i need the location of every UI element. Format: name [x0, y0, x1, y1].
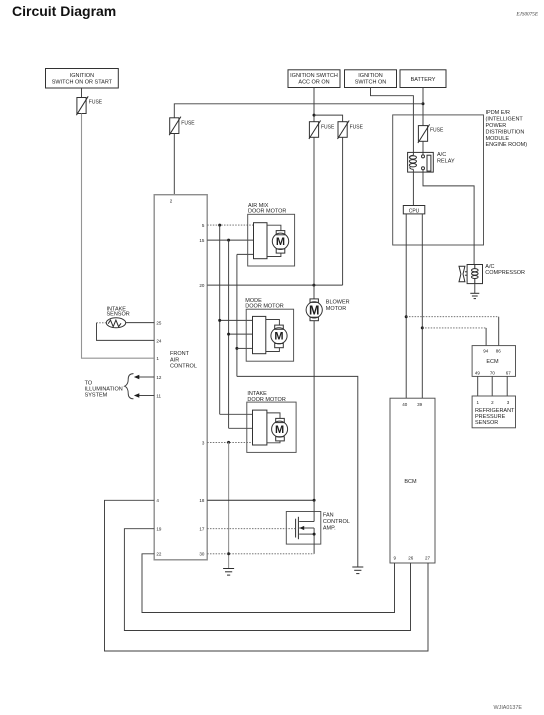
- wire bus B to mode input 2: [229, 333, 253, 335]
- svg-text:22: 22: [156, 552, 162, 557]
- wire F4 to relay contact: [422, 141, 424, 155]
- wire F2 to blower motor: [313, 137, 315, 299]
- wire intake sensor to pin 25: [126, 322, 155, 324]
- connector box IGNITION SWITCH ACC OR ON: [288, 70, 340, 88]
- wire pin 4 to BCM pin 27: [105, 500, 429, 651]
- svg-text:FUSE: FUSE: [350, 124, 364, 130]
- wire ECM 70 to sensor 2: [491, 376, 493, 396]
- svg-text:17: 17: [199, 527, 205, 532]
- wire bus D to ground: [237, 376, 358, 567]
- svg-text:IGNITION: IGNITION: [70, 73, 94, 79]
- svg-text:BLOWER: BLOWER: [326, 300, 350, 306]
- label A/C RELAY: [437, 152, 455, 164]
- svg-text:18: 18: [199, 498, 205, 503]
- node fan amp source junction: [313, 533, 316, 536]
- svg-text:11: 11: [156, 393, 161, 398]
- relay RLY1 A/C relay: [408, 152, 434, 172]
- svg-text:BATTERY: BATTERY: [411, 77, 436, 83]
- svg-text:PRESSURE: PRESSURE: [475, 414, 506, 420]
- wire F1 to FAC pin 1: [82, 114, 155, 359]
- ground compressor: [470, 293, 479, 298]
- svg-text:FUSE: FUSE: [321, 124, 335, 130]
- svg-text:24: 24: [156, 338, 162, 343]
- svg-text:DOOR MOTOR: DOOR MOTOR: [248, 209, 286, 215]
- wire pin 11 to illumination: [139, 395, 155, 397]
- svg-text:FAN: FAN: [323, 512, 334, 518]
- svg-text:(INTELLIGENT: (INTELLIGENT: [486, 117, 524, 123]
- svg-text:27: 27: [425, 555, 431, 560]
- wire battery down to fuse F4: [422, 88, 424, 126]
- label IPDM E/R (INTELLIGENT POWER DISTRIBUTION MODULE ENGINE ROOM): [486, 110, 528, 148]
- connector box BATTERY: [400, 70, 446, 88]
- svg-text:SYSTEM: SYSTEM: [85, 392, 108, 398]
- node branch to ECM 86: [405, 315, 408, 318]
- wire bus to fuse F2a and FAC pin 2: [174, 104, 423, 118]
- svg-text:30: 30: [199, 552, 205, 557]
- svg-text:WJIA0137E: WJIA0137E: [494, 705, 523, 711]
- label MODE DOOR MOTOR: [245, 298, 283, 310]
- motor blower motor: [306, 299, 322, 321]
- svg-text:REFRIGERANT: REFRIGERANT: [475, 408, 515, 414]
- wire bus A to mode input 1: [220, 319, 253, 321]
- svg-text:SENSOR: SENSOR: [107, 312, 130, 318]
- node pin3 ground branch: [227, 441, 230, 444]
- svg-text:IGNITION SWITCH: IGNITION SWITCH: [290, 73, 338, 79]
- svg-text:70: 70: [490, 371, 496, 376]
- wire relay coil to CPU: [412, 169, 414, 205]
- wire bus B vertical: [228, 240, 230, 428]
- svg-text:CONTROL: CONTROL: [170, 364, 197, 370]
- node battery / ACC-bus junction: [422, 102, 425, 105]
- svg-text:ACC OR ON: ACC OR ON: [298, 79, 329, 85]
- transistor Q1 fan control amp: [286, 500, 321, 554]
- wire ECM 67 to sensor 3: [506, 376, 508, 396]
- svg-text:20: 20: [199, 283, 205, 288]
- svg-text:ENGINE ROOM): ENGINE ROOM): [486, 142, 528, 148]
- node branch to ECM 94: [421, 326, 424, 329]
- svg-text:MODULE: MODULE: [486, 136, 510, 142]
- wire ECM 49 to sensor 1: [477, 376, 479, 396]
- wire pin 22 to BCM pin 9: [142, 554, 395, 613]
- wire bus A vertical: [219, 225, 221, 414]
- label FAN CONTROL AMP.: [323, 512, 350, 531]
- wire ground branch vertical: [228, 442, 230, 568]
- wire F2a to FAC pin 2: [173, 134, 175, 195]
- svg-text:19: 19: [156, 527, 162, 532]
- svg-text:RELAY: RELAY: [437, 158, 455, 164]
- wire ignition-on to relay coil: [371, 88, 414, 156]
- wire pin 17 to fan amp gate: [207, 528, 295, 530]
- svg-text:49: 49: [475, 371, 481, 376]
- wire pin 15 to air mix motor: [207, 239, 253, 241]
- motor M1 air mix door motor: [248, 214, 295, 266]
- node bus B mode junction: [227, 333, 230, 336]
- arrow pin 11: [134, 393, 139, 398]
- svg-text:15: 15: [199, 238, 205, 243]
- svg-text:MOTOR: MOTOR: [326, 306, 346, 312]
- svg-text:94: 94: [483, 349, 489, 354]
- svg-text:CPU: CPU: [409, 208, 420, 214]
- svg-text:IPDM E/R: IPDM E/R: [486, 110, 510, 116]
- node ACC branch junction: [313, 114, 316, 117]
- svg-text:CONTROL: CONTROL: [323, 519, 350, 525]
- CPU box: [403, 206, 425, 215]
- motor M2 mode door motor: [246, 309, 293, 361]
- svg-text:FUSE: FUSE: [89, 100, 103, 106]
- wire CPU to BCM pin 40: [405, 214, 407, 398]
- svg-text:FUSE: FUSE: [181, 121, 195, 127]
- svg-text:FUSE: FUSE: [430, 128, 444, 134]
- wire pin 18 to fan amp: [207, 499, 314, 501]
- label A/C COMPRESSOR: [485, 264, 525, 276]
- svg-text:FRONT: FRONT: [170, 351, 190, 357]
- svg-text:COMPRESSOR: COMPRESSOR: [485, 270, 525, 276]
- wire bus D vertical: [236, 254, 238, 376]
- wire branch to ECM pin 94: [422, 328, 486, 346]
- svg-text:DISTRIBUTION: DISTRIBUTION: [486, 129, 525, 135]
- node bus A mode junction: [218, 319, 221, 322]
- wire pin 20 to fuse F3: [207, 284, 342, 286]
- wire F3 riser: [342, 137, 344, 285]
- node bus D mode junction: [235, 347, 238, 350]
- connector box IGNITION SWITCH ON OR START: [46, 69, 119, 89]
- fuse F2: [309, 121, 335, 140]
- label AIR MIX DOOR MOTOR: [248, 203, 286, 215]
- svg-text:M: M: [276, 236, 285, 248]
- wire bus A to intake input 1: [220, 413, 253, 415]
- wire blower motor to fan amp drain: [313, 321, 315, 501]
- wire ACC switch down to fuse F2: [313, 88, 315, 122]
- svg-text:AIR: AIR: [170, 357, 179, 363]
- wire pin 19 to BCM pin 26: [124, 529, 410, 631]
- brace illumination: [125, 374, 134, 399]
- svg-text:SENSOR: SENSOR: [475, 420, 498, 426]
- svg-text:86: 86: [496, 349, 502, 354]
- label TO ILLUMINATION SYSTEM: [85, 380, 123, 398]
- svg-text:SWITCH ON: SWITCH ON: [355, 79, 386, 85]
- svg-text:M: M: [309, 304, 319, 318]
- svg-text:M: M: [275, 424, 284, 436]
- node pin20 blower junction: [312, 284, 315, 287]
- wire pin 5 to air mix motor: [207, 224, 253, 226]
- connector box IGNITION SWITCH ON: [345, 70, 397, 88]
- wire pin 3 to intake input 3: [207, 441, 252, 443]
- wire bus D to mode input 3: [237, 347, 253, 349]
- svg-text:ECM: ECM: [486, 359, 499, 365]
- wire relay contact to A/C compressor: [423, 170, 474, 265]
- wire ignition-start to fuse F1: [81, 88, 83, 98]
- fuse F4: [418, 124, 444, 143]
- ground door motor common: [352, 567, 363, 574]
- wire pin 30 to fan amp source: [207, 553, 314, 555]
- svg-text:67: 67: [506, 371, 512, 376]
- arrow pin 12: [134, 375, 139, 380]
- svg-text:26: 26: [408, 555, 414, 560]
- label INTAKE DOOR MOTOR: [247, 391, 285, 403]
- svg-text:A/C: A/C: [437, 152, 446, 158]
- svg-text:40: 40: [402, 402, 408, 407]
- IPDM E/R module box: [393, 115, 484, 245]
- svg-text:12: 12: [156, 375, 162, 380]
- fuse F3: [338, 121, 364, 140]
- ECM box: [472, 346, 515, 377]
- wire intake sensor to pin 24: [97, 323, 155, 341]
- motor M3 intake door motor: [247, 402, 296, 452]
- svg-text:DOOR MOTOR: DOOR MOTOR: [245, 304, 283, 310]
- svg-text:AMP.: AMP.: [323, 525, 336, 531]
- svg-text:39: 39: [417, 402, 423, 407]
- wire compressor to ground: [474, 284, 476, 294]
- fuse F1: [76, 96, 102, 115]
- svg-text:EJS0075E: EJS0075E: [515, 12, 538, 18]
- svg-text:IGNITION: IGNITION: [358, 73, 382, 79]
- node pin15 branch B: [227, 239, 230, 242]
- wire air mix input 3: [237, 253, 254, 255]
- wire branch to ECM pin 86: [406, 317, 499, 346]
- node pin5 branch A: [218, 224, 221, 227]
- refrigerant pressure sensor box: [472, 396, 515, 428]
- motor A/C compressor coil: [467, 265, 482, 284]
- svg-text:Circuit Diagram: Circuit Diagram: [12, 3, 116, 19]
- label BLOWER MOTOR: [326, 300, 350, 312]
- wire ACC branch to fuse F3: [314, 115, 343, 122]
- wire pin 12 to illumination: [139, 376, 155, 378]
- svg-text:25: 25: [156, 320, 162, 325]
- fuse F2a: [169, 117, 195, 136]
- svg-text:BCM: BCM: [404, 479, 417, 485]
- svg-text:M: M: [274, 331, 283, 343]
- label INTAKE SENSOR: [107, 306, 130, 317]
- svg-text:POWER: POWER: [486, 123, 507, 129]
- svg-text:SWITCH ON OR START: SWITCH ON OR START: [52, 79, 113, 85]
- node ground branch pin30 crossing: [227, 552, 230, 555]
- node fan amp drain junction: [313, 499, 316, 502]
- svg-text:A/C: A/C: [485, 264, 494, 270]
- thermistor intake sensor: [106, 318, 125, 328]
- front air control unit box U1: [154, 195, 207, 560]
- BCM box: [390, 398, 435, 563]
- compressor clutch pulley: [459, 266, 467, 281]
- ground intake branch: [223, 569, 234, 576]
- wire bus B to intake input 2: [229, 427, 253, 429]
- wire CPU to BCM pin 39: [421, 214, 423, 398]
